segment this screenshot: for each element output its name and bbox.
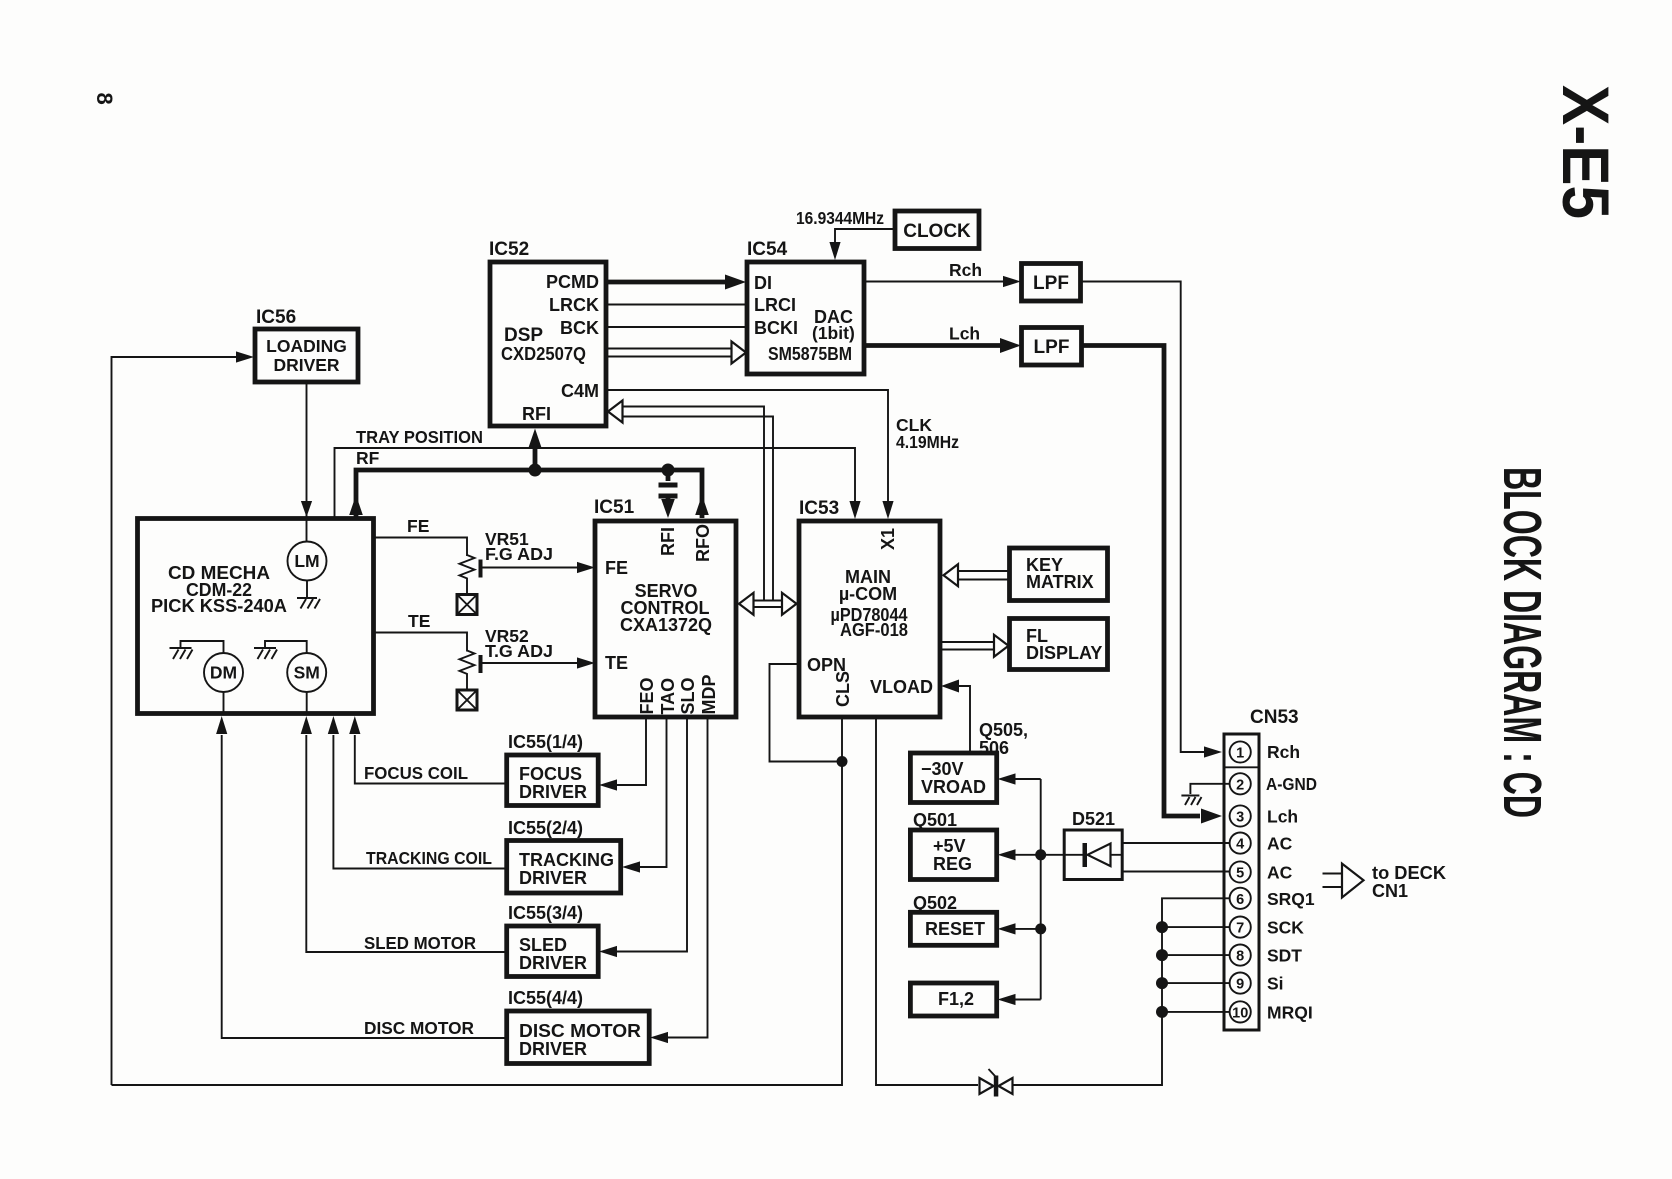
- svg-text:IC56: IC56: [256, 307, 296, 328]
- arrowhead into +5V box: [998, 849, 1016, 860]
- open arrowhead into IC53 right: [944, 564, 959, 586]
- arrowhead Rch into pin1: [1204, 746, 1222, 757]
- wire DM to ground: [181, 641, 224, 653]
- svg-text:7: 7: [1236, 921, 1244, 937]
- to DECK CN1 arrow: [1323, 863, 1447, 901]
- svg-text:DRIVER: DRIVER: [519, 953, 587, 973]
- bus IC51 to IC53 (bidirectional): [752, 601, 783, 608]
- junction OPN/CLS: [837, 756, 848, 767]
- disc motor driver U IC55d box: [507, 1011, 650, 1064]
- ground at pin2: [1181, 796, 1201, 806]
- wire pin10 tap: [1162, 1011, 1230, 1013]
- svg-text:4.19MHz: 4.19MHz: [896, 432, 959, 452]
- wiper bar VR51: [479, 560, 483, 578]
- bus IC52 to IC54 (double line): [607, 349, 733, 357]
- bus risers to IC52 RFI (double line): [621, 407, 773, 601]
- wire IC51 TAO to tracking driver: [637, 717, 667, 867]
- svg-text:CXD2507Q: CXD2507Q: [501, 344, 586, 364]
- svg-text:BLOCK DIAGRAM : CD: BLOCK DIAGRAM : CD: [1492, 467, 1552, 818]
- svg-text:AGF-018: AGF-018: [840, 620, 908, 640]
- svg-text:MDP: MDP: [699, 675, 719, 715]
- arrowhead into IC53 VLOAD: [941, 680, 959, 693]
- wire RF net (thick): [356, 470, 702, 518]
- svg-text:IC53: IC53: [799, 498, 839, 519]
- svg-text:10: 10: [1232, 1005, 1248, 1021]
- RESET box: [910, 912, 996, 945]
- pin 1: [1230, 741, 1300, 762]
- wire sled driver to sled motor: [306, 735, 506, 952]
- bus KEY MATRIX to IC53 (double line): [956, 571, 1010, 580]
- wire LPF Lch to CN53 pin3 (thick): [1082, 346, 1201, 817]
- junction RF to IC52 RFI: [529, 464, 542, 477]
- resistor VR52: [460, 651, 475, 690]
- arrowhead into IC54 top: [829, 242, 840, 260]
- wire pin8 tap: [1162, 954, 1230, 956]
- arrowhead RFO up to RF line: [695, 495, 709, 515]
- arrowhead into focus driver: [599, 779, 617, 790]
- svg-text:CLOCK: CLOCK: [903, 221, 971, 242]
- svg-text:SCK: SCK: [1267, 918, 1304, 938]
- arrowhead PCMD into DI: [725, 275, 746, 290]
- svg-text:8: 8: [92, 93, 117, 105]
- wire IC51 MDP to disc motor driver: [666, 717, 708, 1038]
- servo control U IC51 box: [595, 521, 736, 717]
- ground at DM: [170, 648, 193, 659]
- +5V REG box: [910, 830, 996, 880]
- wire IC54 Rch to LPF: [864, 281, 1004, 283]
- arrowhead tracking coil into CD MECHA: [328, 716, 339, 734]
- svg-text:PICK KSS-240A: PICK KSS-240A: [151, 596, 287, 616]
- svg-text:REG: REG: [933, 854, 972, 874]
- svg-text:Lch: Lch: [949, 324, 980, 344]
- arrowhead Rch into LPF: [1003, 276, 1021, 287]
- arrowhead into tracking driver: [622, 861, 640, 872]
- svg-text:3: 3: [1236, 810, 1244, 826]
- wire CLS down to bottom rail: [112, 717, 843, 1085]
- svg-text:to DECK: to DECK: [1372, 863, 1446, 883]
- svg-text:16.9344MHz: 16.9344MHz: [796, 208, 884, 228]
- pin 10: [1230, 1001, 1313, 1022]
- junction RF to coupling cap: [662, 464, 675, 477]
- svg-text:Rch: Rch: [949, 260, 982, 280]
- wire CLOCK to IC54 top: [835, 229, 895, 242]
- svg-text:2: 2: [1236, 777, 1244, 793]
- pin 3: [1230, 805, 1299, 826]
- ground at SM: [254, 648, 277, 659]
- svg-text:SLO: SLO: [678, 677, 698, 714]
- svg-text:TRACKING: TRACKING: [519, 850, 614, 870]
- svg-text:IC55(2/4): IC55(2/4): [508, 818, 583, 838]
- svg-text:CN53: CN53: [1250, 707, 1299, 728]
- svg-text:SM: SM: [294, 663, 320, 683]
- svg-text:C4M: C4M: [561, 381, 599, 401]
- wire tracking driver to tracking coil: [333, 735, 506, 869]
- svg-text:8: 8: [1236, 949, 1244, 965]
- svg-text:DRIVER: DRIVER: [519, 782, 587, 802]
- svg-text:5: 5: [1236, 866, 1244, 882]
- svg-text:BCKI: BCKI: [754, 318, 798, 338]
- svg-text:Rch: Rch: [1267, 742, 1300, 762]
- arrowhead into CD MECHA top: [301, 501, 312, 517]
- svg-text:SDT: SDT: [1267, 946, 1302, 966]
- svg-text:PCMD: PCMD: [546, 272, 599, 292]
- arrowhead into -30V box: [998, 773, 1016, 784]
- svg-text:LRCI: LRCI: [754, 295, 796, 315]
- svg-text:DRIVER: DRIVER: [519, 868, 587, 888]
- loading driver U IC56 box: [255, 329, 358, 382]
- svg-text:1: 1: [1236, 746, 1244, 762]
- wire TE from CD MECHA: [374, 633, 467, 652]
- svg-text:LPF: LPF: [1033, 273, 1069, 294]
- pin 2: [1230, 773, 1317, 794]
- svg-text:IC52: IC52: [489, 239, 529, 260]
- arrowhead disc motor into CD MECHA: [216, 716, 227, 734]
- LPF (Rch) box: [1022, 264, 1081, 302]
- terminator VR51 (crossed box): [457, 595, 477, 615]
- svg-text:VROAD: VROAD: [921, 777, 986, 797]
- svg-text:Q505,: Q505,: [979, 720, 1028, 740]
- DSP U IC52 box: [490, 262, 606, 426]
- arrowhead into sled driver: [599, 946, 617, 957]
- junction rail at RESET: [1035, 923, 1046, 934]
- svg-text:TE: TE: [408, 611, 430, 631]
- wire TRAY POSITION: [335, 448, 856, 518]
- wiper bar VR52: [479, 655, 483, 673]
- svg-text:MATRIX: MATRIX: [1026, 572, 1094, 592]
- svg-text:DISPLAY: DISPLAY: [1026, 643, 1102, 663]
- svg-text:FOCUS: FOCUS: [519, 764, 582, 784]
- svg-text:SLED: SLED: [519, 935, 567, 955]
- wire pin2 to ground: [1190, 784, 1229, 794]
- LPF (Lch) box: [1022, 328, 1082, 366]
- arrowhead Lch into LPF: [1000, 338, 1021, 353]
- svg-text:RFI: RFI: [522, 404, 551, 424]
- main micom U IC53 box: [799, 521, 940, 717]
- arrowhead TRAY POSITION into IC53 top: [849, 501, 860, 519]
- focus driver U IC55a box: [507, 755, 599, 806]
- wire IC53 SRQ down to bottom rail: [876, 717, 978, 1085]
- svg-text:µ-COM: µ-COM: [839, 584, 897, 604]
- svg-text:T.G ADJ: T.G ADJ: [485, 641, 553, 661]
- svg-text:RFO: RFO: [693, 524, 713, 562]
- svg-text:CN1: CN1: [1372, 881, 1408, 901]
- pin 4: [1230, 833, 1293, 854]
- wire IC51 FEO to focus driver: [615, 717, 646, 785]
- wire IC51 SLO to sled driver: [615, 717, 687, 952]
- wire C4M to IC53 X1: [607, 390, 888, 502]
- svg-text:FE: FE: [605, 558, 628, 578]
- svg-text:RF: RF: [356, 448, 380, 468]
- wire D521 to pin4: [1122, 842, 1229, 844]
- svg-text:FE: FE: [407, 516, 429, 536]
- wire IC56 input from left rail: [112, 357, 241, 1085]
- svg-text:+5V: +5V: [933, 836, 966, 856]
- svg-text:IC55(4/4): IC55(4/4): [508, 988, 583, 1008]
- junction rail at +5V: [1035, 849, 1046, 860]
- svg-text:RESET: RESET: [925, 919, 985, 939]
- svg-text:Q501: Q501: [913, 810, 957, 830]
- wire SM to box bottom: [306, 692, 308, 713]
- motor LM circle: [288, 542, 327, 581]
- arrowhead sled motor into CD MECHA: [301, 716, 312, 734]
- wire OPN to CLS junction: [770, 664, 843, 762]
- svg-text:CXA1372Q: CXA1372Q: [620, 615, 712, 635]
- wire RF to IC52 RFI (thick): [533, 446, 538, 470]
- pin 6: [1230, 888, 1315, 909]
- svg-text:DISC MOTOR: DISC MOTOR: [364, 1018, 474, 1038]
- pin 9: [1230, 973, 1284, 994]
- wire LM to ground: [306, 581, 308, 598]
- wire VLOAD input: [958, 686, 970, 753]
- arrowhead into RESET box: [998, 923, 1016, 934]
- F1,2 box: [910, 983, 996, 1016]
- open arrowhead bus into IC52: [608, 401, 623, 423]
- svg-text:LM: LM: [294, 551, 319, 571]
- wire IC54 Lch to LPF (thick): [864, 343, 1002, 348]
- wire SRQ1 riser: [1013, 898, 1230, 1085]
- svg-text:Lch: Lch: [1267, 807, 1298, 827]
- wire BCK to BCKI: [607, 326, 747, 328]
- arrowhead into IC56: [236, 351, 254, 362]
- svg-text:LOADING: LOADING: [266, 336, 347, 356]
- junction pin8: [1156, 949, 1168, 961]
- arrowhead C4M into IC53 top: [882, 501, 893, 519]
- svg-text:DRIVER: DRIVER: [273, 355, 339, 375]
- diode D521 box: [1064, 830, 1122, 880]
- wire DM to box bottom: [223, 692, 225, 713]
- open arrowhead into FL DISPLAY: [994, 635, 1009, 657]
- -30V VROAD box: [910, 753, 996, 803]
- svg-text:LRCK: LRCK: [549, 295, 599, 315]
- svg-text:SRQ1: SRQ1: [1267, 889, 1315, 909]
- svg-text:BCK: BCK: [560, 318, 599, 338]
- power rail vertical: [1040, 779, 1042, 1000]
- DAC U IC54 box: [747, 262, 864, 374]
- svg-text:DISC MOTOR: DISC MOTOR: [519, 1021, 641, 1041]
- svg-text:SLED MOTOR: SLED MOTOR: [364, 933, 476, 953]
- wire -30V input from rail: [1012, 778, 1041, 780]
- svg-text:LPF: LPF: [1034, 337, 1070, 358]
- wire RESET input: [1012, 928, 1041, 930]
- svg-text:AC: AC: [1267, 834, 1293, 854]
- wire F1,2 input: [1012, 999, 1041, 1001]
- arrowhead RFI into IC52 bottom: [528, 429, 542, 449]
- arrowhead into IC51 FE: [577, 562, 595, 573]
- svg-text:RFI: RFI: [658, 527, 678, 556]
- svg-text:SM5875BM: SM5875BM: [768, 344, 852, 364]
- wire LPF Rch to CN53 pin1: [1081, 282, 1205, 753]
- double diode on bottom rail: [980, 1069, 1013, 1097]
- junction pin9: [1156, 977, 1168, 989]
- CLOCK box: [895, 211, 979, 249]
- bus IC53 to FL DISPLAY (double line): [940, 642, 996, 650]
- svg-text:DSP: DSP: [504, 325, 543, 346]
- wire D521 to pin5: [1122, 871, 1229, 873]
- svg-text:X1: X1: [878, 528, 898, 550]
- resistor VR51: [460, 555, 475, 594]
- svg-text:IC55(1/4): IC55(1/4): [508, 732, 583, 752]
- capacitor at IC51 RFI: [659, 470, 678, 518]
- pin 5: [1230, 861, 1293, 882]
- wire disc motor driver to disc motor: [222, 735, 507, 1038]
- svg-text:X-E5: X-E5: [1549, 85, 1623, 219]
- open arrowhead bus into IC54: [732, 342, 747, 364]
- svg-text:TE: TE: [605, 653, 628, 673]
- svg-text:VLOAD: VLOAD: [870, 677, 933, 697]
- svg-text:FOCUS COIL: FOCUS COIL: [364, 763, 468, 783]
- svg-text:DI: DI: [754, 273, 772, 293]
- wire pin7 tap: [1162, 926, 1230, 928]
- svg-text:MRQI: MRQI: [1267, 1002, 1313, 1022]
- svg-text:TAO: TAO: [658, 678, 678, 715]
- arrowhead RF up from CD MECHA: [349, 495, 363, 515]
- pin 8: [1230, 945, 1303, 966]
- arrowhead into disc motor driver: [650, 1032, 668, 1043]
- wire PCMD to DI (thick): [607, 280, 728, 285]
- pin 7: [1230, 917, 1305, 938]
- svg-text:DM: DM: [210, 663, 237, 683]
- svg-text:TRACKING COIL: TRACKING COIL: [366, 848, 492, 868]
- CD MECHA box: [138, 519, 374, 714]
- terminator VR52 (crossed box): [457, 690, 477, 710]
- open arrowhead bus into IC51: [739, 593, 754, 615]
- open arrowhead bus into IC53: [782, 593, 797, 615]
- connector CN53 box: [1224, 734, 1259, 1030]
- FL DISPLAY box: [1010, 619, 1108, 670]
- motor DM circle: [204, 653, 243, 692]
- svg-text:IC51: IC51: [594, 497, 635, 518]
- wire +5V input: [1012, 854, 1064, 856]
- svg-text:F.G ADJ: F.G ADJ: [485, 544, 553, 564]
- motor SM circle: [287, 653, 326, 692]
- svg-text:AC: AC: [1267, 863, 1293, 883]
- svg-text:(1bit): (1bit): [812, 323, 855, 343]
- svg-text:D521: D521: [1072, 809, 1115, 829]
- wire VR51 wiper to IC51 FE: [483, 567, 579, 569]
- svg-text:Si: Si: [1267, 974, 1284, 994]
- svg-text:IC54: IC54: [747, 239, 788, 260]
- svg-text:−30V: −30V: [921, 759, 964, 779]
- svg-text:A-GND: A-GND: [1266, 774, 1317, 794]
- svg-text:CLS: CLS: [833, 671, 853, 707]
- wire LRCK to LRCI: [607, 304, 747, 306]
- svg-text:IC55(3/4): IC55(3/4): [508, 903, 583, 923]
- svg-text:DRIVER: DRIVER: [519, 1039, 587, 1059]
- wire FE from CD MECHA: [374, 538, 467, 557]
- wire SM to ground: [265, 641, 307, 653]
- divider under pin1: [1224, 766, 1259, 768]
- junction pin10: [1156, 1006, 1168, 1018]
- arrowhead focus coil into CD MECHA: [349, 716, 360, 734]
- junction pin7: [1156, 921, 1168, 933]
- wire focus driver to focus coil: [355, 735, 507, 784]
- tracking driver U IC55b box: [507, 841, 621, 894]
- wire loading driver to CD MECHA (LM): [306, 382, 308, 541]
- KEY MATRIX box: [1010, 548, 1108, 601]
- wire pin9 tap: [1162, 982, 1230, 984]
- svg-text:FEO: FEO: [637, 677, 657, 714]
- svg-text:6: 6: [1236, 892, 1244, 908]
- svg-text:4: 4: [1236, 837, 1244, 853]
- svg-text:F1,2: F1,2: [938, 989, 974, 1009]
- sled driver U IC55c box: [507, 926, 599, 977]
- arrowhead into IC51 TE: [577, 657, 595, 668]
- ground at LM: [297, 598, 320, 609]
- arrowhead Lch into pin3: [1201, 809, 1222, 824]
- wire VR52 wiper to IC51 TE: [483, 662, 579, 664]
- arrowhead into F1,2 box: [998, 994, 1016, 1005]
- svg-text:9: 9: [1236, 977, 1244, 993]
- svg-text:TRAY POSITION: TRAY POSITION: [356, 427, 483, 447]
